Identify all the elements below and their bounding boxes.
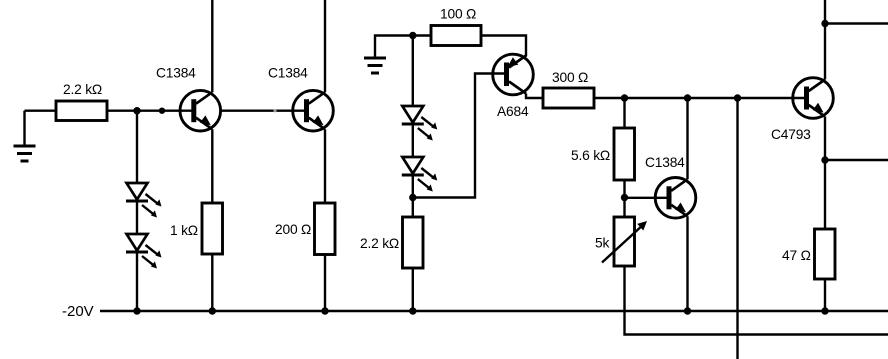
svg-text:C1384: C1384 bbox=[268, 66, 308, 81]
wire: Q5 collector up to top edge bbox=[824, 0, 826, 80]
junction node F (Q4 collector) bbox=[684, 94, 691, 101]
svg-text:-20V: -20V bbox=[62, 303, 94, 320]
transistor Q5 C4793 (NPN) bbox=[792, 78, 834, 119]
junction node J (emitter branch) bbox=[821, 156, 828, 163]
junction on rail (2.2k) bbox=[409, 307, 416, 314]
ground GND2 (middle) bbox=[364, 58, 386, 73]
junction node I (collector branch) bbox=[821, 20, 828, 27]
svg-text:C1384: C1384 bbox=[645, 155, 685, 170]
wire: Q1 collector up to top edge bbox=[211, 0, 213, 92]
LED D4 bbox=[402, 157, 438, 192]
wire: node E to 5.6k bbox=[623, 98, 625, 128]
wire: 47 Ohm to rail bbox=[824, 279, 826, 311]
junction on rail (47) bbox=[821, 307, 828, 314]
svg-text:A684: A684 bbox=[497, 104, 529, 119]
wire: Q2 emitter down to 200 bbox=[324, 129, 326, 203]
wire: D4 down to 2.2k vertical bbox=[412, 175, 414, 217]
svg-text:5k: 5k bbox=[595, 236, 609, 251]
svg-text:5.6 kΩ: 5.6 kΩ bbox=[571, 148, 610, 163]
resistor 1 kOhm (vertical) bbox=[202, 203, 223, 254]
resistor 5.6 kOhm (vertical) bbox=[614, 128, 635, 180]
junction node D (A684 base tap) bbox=[409, 194, 416, 201]
transistor Q3 A684 (PNP) bbox=[492, 54, 534, 95]
wire: node C down to LED D3 bbox=[412, 36, 414, 107]
wire: node D to Q3 base bbox=[413, 74, 493, 198]
wire: Q4 emitter down to rail bbox=[686, 216, 688, 311]
transistor Q4 C1384 (NPN) bbox=[654, 178, 696, 219]
svg-text:100 Ω: 100 Ω bbox=[440, 7, 476, 22]
wire: Q2 collector up to top edge bbox=[324, 0, 326, 92]
svg-text:2.2 kΩ: 2.2 kΩ bbox=[360, 236, 399, 251]
wire: 5.6k to 5k pot bbox=[623, 180, 625, 217]
wire: 200 to rail bbox=[324, 255, 326, 312]
wire: GND1 to resistor 2.2k bbox=[25, 109, 57, 111]
resistor 200 Ohm (vertical) bbox=[315, 203, 336, 255]
wire: node G feedback vertical to bottom edge bbox=[736, 98, 738, 359]
wire: D2 to -20V rail bbox=[136, 252, 138, 311]
junction on rail (LED chain) bbox=[133, 307, 140, 314]
junction node E (5.6k tap) bbox=[621, 94, 628, 101]
junction on rail (200) bbox=[321, 307, 328, 314]
junction node A (LED tap) bbox=[133, 107, 140, 114]
svg-text:200 Ω: 200 Ω bbox=[275, 222, 311, 237]
wire: 2.2k vertical to rail bbox=[412, 268, 414, 311]
wire: node J to right edge bbox=[825, 159, 888, 161]
wire: Q1 emitter down to 1k bbox=[211, 129, 213, 203]
wire: GND2 up and right to node C bbox=[375, 36, 413, 60]
LED D1 bbox=[126, 183, 162, 218]
junction node G (feedback tap) bbox=[734, 94, 741, 101]
junction on rail (1k) bbox=[209, 307, 216, 314]
junction (faint) on Q1-Q2 wire bbox=[273, 109, 276, 112]
wire: D3 to D4 bbox=[412, 124, 414, 157]
svg-text:C1384: C1384 bbox=[156, 66, 196, 81]
potentiometer 5k (rheostat) bbox=[602, 217, 647, 266]
svg-text:2.2 kΩ: 2.2 kΩ bbox=[63, 82, 102, 97]
resistor 100 Ohm (horizontal) bbox=[431, 26, 481, 46]
resistor 300 Ohm (horizontal) bbox=[543, 88, 594, 108]
junction on rail (Q4 emitter) bbox=[684, 307, 691, 314]
wire: node C to 100 Ohm bbox=[413, 34, 431, 36]
wire: 1k to rail bbox=[211, 254, 213, 311]
wire: node A down to LED D1 bbox=[136, 111, 138, 183]
wire: 2.2k to Q1 base bbox=[107, 109, 181, 111]
resistor 2.2 kOhm (vertical, middle) bbox=[403, 217, 424, 268]
transistor Q2 C1384 (NPN) bbox=[292, 90, 334, 131]
wire: D1 to D2 bbox=[136, 201, 138, 234]
wire: 5k pot bottom to lower bus bbox=[625, 266, 888, 335]
wire: Q5 emitter down to 47 Ohm bbox=[824, 117, 826, 230]
wire: -20V supply rail bbox=[100, 310, 888, 312]
svg-text:1 kΩ: 1 kΩ bbox=[170, 223, 198, 238]
wire: node I to right edge bbox=[825, 22, 888, 24]
transistor Q1 C1384 (NPN) bbox=[179, 90, 221, 131]
wire: Q3 collector to 300 Ohm bbox=[526, 94, 543, 99]
resistor 2.2 kOhm (horizontal, left) bbox=[56, 101, 107, 121]
LED D2 bbox=[126, 234, 162, 269]
ground GND1 (left) bbox=[14, 111, 36, 161]
resistor 47 Ohm (vertical) bbox=[815, 229, 836, 279]
wire: Q4 collector up to node F bbox=[686, 98, 688, 179]
junction node C bbox=[409, 32, 416, 39]
junction node H (Q4 base tap) bbox=[621, 194, 628, 201]
svg-text:47 Ω: 47 Ω bbox=[782, 248, 811, 263]
wire: node H to Q4 base bbox=[625, 197, 657, 199]
junction node B bbox=[159, 108, 165, 114]
wire: 100 Ohm to Q3 emitter bbox=[481, 36, 526, 57]
svg-text:C4793: C4793 bbox=[771, 127, 811, 142]
wire: Q1 to Q2 base bbox=[220, 109, 294, 111]
svg-text:300 Ω: 300 Ω bbox=[552, 70, 588, 85]
LED D3 bbox=[402, 106, 438, 141]
wire: main line 300 Ohm to Q5 base bbox=[594, 97, 793, 99]
